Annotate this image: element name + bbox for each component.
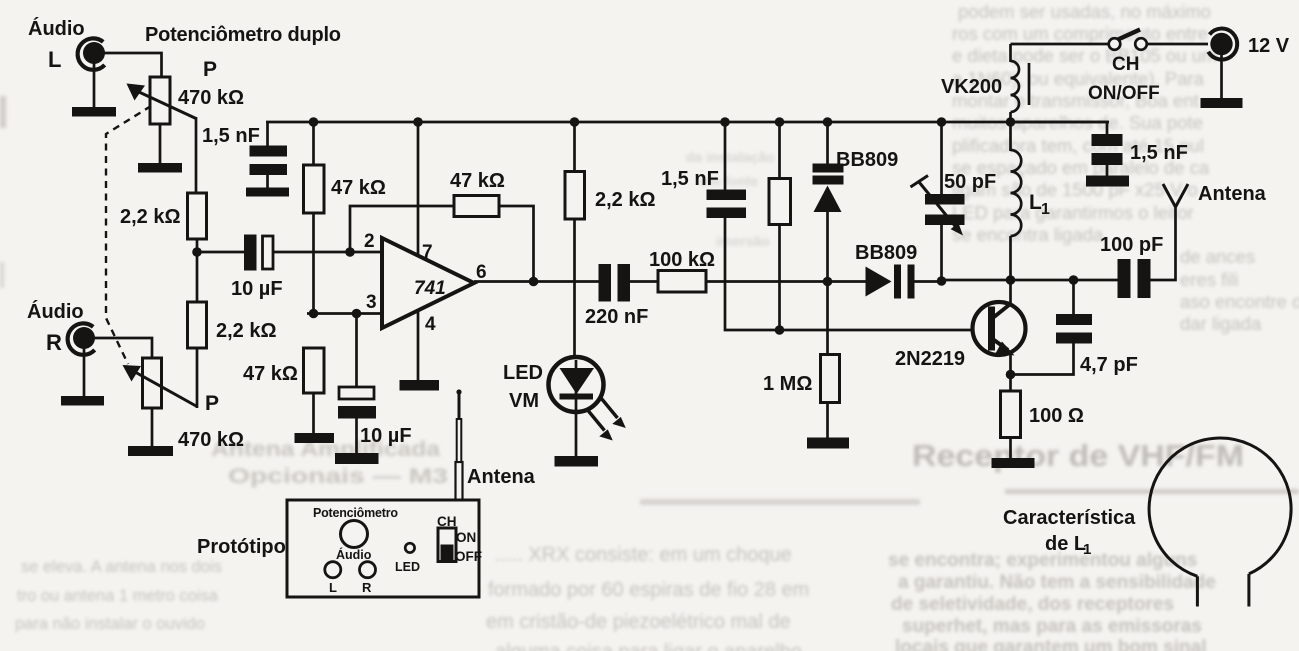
svg-text:Áudio: Áudio [27, 300, 84, 323]
trimmer capacitor 50pF [911, 122, 997, 281]
ground under 10uF bypass [335, 419, 379, 465]
switch CH [1109, 30, 1147, 50]
svg-text:a garantiu. Não tem a sensibil: a garantiu. Não tem a sensibilidade [898, 572, 1216, 593]
wire switch to 12V jack [1147, 43, 1208, 46]
node pin2 / feedback [345, 247, 355, 257]
svg-text:CH: CH [1112, 54, 1139, 75]
node rail / middle resistor [775, 117, 785, 127]
capacitor 1,5nF supply bypass [1011, 122, 1188, 187]
resistor middle (base feed) [769, 122, 791, 330]
label Caracteristica de L1 [1003, 507, 1136, 558]
wire 1,5nF down to base line [725, 218, 990, 330]
capacitor 10uF input (polarized) [231, 235, 283, 301]
node pin3 / 10uF [352, 309, 362, 319]
ground under jack L [72, 63, 116, 117]
capacitor 4,7pF feedback [1015, 280, 1138, 376]
node rail / pin7 [413, 117, 423, 127]
svg-text:2N2219: 2N2219 [895, 348, 965, 370]
svg-text:470 kΩ: 470 kΩ [178, 429, 244, 451]
ground under pot L [138, 124, 182, 173]
wire 2,2k down to LED (crosses output line, no junction) [573, 219, 576, 358]
svg-text:P: P [203, 58, 217, 81]
svg-text:10 µF: 10 µF [231, 278, 283, 300]
connector J3 12V supply [1208, 29, 1237, 60]
svg-text:locais que garantem um bom sin: locais que garantem um bom sinal [895, 637, 1206, 651]
varicap D2 BB809 (horizontal) [855, 242, 917, 299]
svg-text:P: P [205, 392, 219, 415]
svg-text:10 µF: 10 µF [360, 425, 412, 447]
ground under 12V jack [1201, 54, 1243, 108]
node output / feedback [529, 277, 539, 287]
ground under 47k lower [295, 393, 335, 443]
node rail / VK200 [1006, 117, 1016, 127]
capacitor C1 1,5nF to ground [246, 122, 289, 197]
svg-text:Potenciômetro duplo: Potenciômetro duplo [145, 24, 341, 46]
node L1 / collector / signal [1006, 275, 1016, 285]
wire jack R to pot R [94, 338, 152, 359]
node rail / varicap 1 [823, 117, 833, 127]
resistor 47k feedback [450, 170, 505, 217]
svg-text:4,7 pF: 4,7 pF [1080, 354, 1138, 376]
svg-text:50 pF: 50 pF [944, 171, 996, 193]
resistor 2,2k (L) [120, 193, 207, 239]
potentiometer P (R) 470k [123, 358, 198, 408]
svg-text:Característica: Característica [1003, 507, 1136, 529]
op-amp U1 741 [382, 238, 474, 328]
node signal / 4,7pF [1069, 275, 1079, 285]
node 47k divider / pin3 [309, 309, 319, 319]
node rail / trimmer [937, 117, 947, 127]
ground under 100 Ohm [992, 438, 1035, 469]
label Audio R [27, 300, 84, 355]
telescopic antenna rod [456, 389, 536, 500]
resistor 100k series [649, 249, 715, 292]
svg-text:aso encontre o: aso encontre o [1180, 291, 1299, 312]
svg-text:4: 4 [425, 314, 436, 335]
ground under jack R [61, 348, 104, 406]
potentiometer P (L) 470k [127, 77, 197, 124]
svg-text:100 Ω: 100 Ω [1029, 405, 1084, 427]
resistor 2,2k (R) [188, 302, 277, 348]
wire varicap1 down (crosses base line) [826, 211, 829, 355]
svg-text:2,2 kΩ: 2,2 kΩ [216, 320, 277, 342]
svg-text:741: 741 [414, 278, 446, 299]
node trimmer / signal line [937, 276, 947, 286]
svg-text:LED: LED [503, 362, 543, 384]
svg-text:ros com um comprimento entre: ros com um comprimento entre [952, 23, 1208, 44]
svg-text:Protótipo: Protótipo [197, 536, 286, 558]
wire VK200 top to switch [1011, 43, 1110, 46]
signal line right section [942, 279, 1119, 282]
svg-text:R: R [362, 580, 372, 595]
svg-text:470 kΩ: 470 kΩ [178, 87, 244, 109]
wire: top supply rail [266, 121, 1109, 124]
svg-text:VM: VM [509, 390, 539, 412]
svg-text:1: 1 [1083, 541, 1091, 558]
svg-text:de seletividade, dos receptore: de seletividade, dos receptores [891, 594, 1174, 615]
capacitor 1,5nF mid [661, 122, 746, 218]
svg-text:Áudio: Áudio [28, 17, 85, 40]
resistor 1M [763, 355, 840, 403]
svg-text:em cristão-de piezoelétrico ma: em cristão-de piezoelétrico mal de [486, 611, 791, 633]
LED VM indicator [549, 357, 604, 412]
svg-text:12 V: 12 V [1248, 35, 1290, 57]
svg-text:podem ser usadas, no máximo: podem ser usadas, no máximo [958, 1, 1211, 22]
wire 100pF to antenna [1151, 206, 1176, 280]
wire op-amp output [474, 280, 599, 283]
svg-text:se encontra; experimentou algu: se encontra; experimentou alguns [888, 550, 1197, 571]
wire pin 4 down [417, 310, 420, 381]
svg-text:da instalação: da instalação [686, 149, 775, 165]
connector J2 RCA Audio R [68, 323, 95, 354]
capacitor 220nF coupling [585, 264, 648, 328]
svg-text:L: L [329, 580, 337, 595]
svg-text:alguma coisa para ligar o apar: alguma coisa para ligar o aparelho [495, 641, 802, 651]
svg-text:ON: ON [456, 530, 476, 545]
svg-text:Opcionais — M3: Opcionais — M3 [228, 465, 448, 488]
svg-text:superhet, mas para as emissora: superhet, mas para as emissoras [902, 616, 1202, 637]
LED light arrows [588, 398, 626, 441]
wire 2,2k R down to wiper [196, 348, 199, 408]
svg-text:1,5 nF: 1,5 nF [661, 168, 719, 190]
wire pin 7 to rail [417, 122, 420, 257]
ground under 1M [807, 403, 849, 449]
wire varicap2 to trimmer node [915, 280, 943, 283]
wire 2,2k to node [196, 239, 199, 303]
svg-text:Potenciômetro: Potenciômetro [313, 506, 398, 520]
svg-text:e dieta pode ser o BB105 ou um: e dieta pode ser o BB105 ou um [952, 45, 1217, 66]
svg-text:LED: LED [395, 560, 420, 574]
svg-text:47 kΩ: 47 kΩ [450, 170, 505, 192]
svg-text:se encontra ligada: se encontra ligada [952, 224, 1104, 245]
capacitor 10uF bypass (polarized) [338, 314, 412, 448]
antenna symbol [1163, 183, 1267, 207]
label Audio L [28, 17, 85, 72]
svg-text:R: R [46, 330, 62, 355]
svg-text:220 nF: 220 nF [585, 306, 648, 328]
wire cap to op-amp pin 2 [273, 251, 383, 254]
wire op-amp pin 3 line [307, 312, 383, 315]
resistor 100 Ohm emitter [1001, 375, 1084, 438]
ground under LED [555, 410, 599, 467]
svg-text:LED para garantirmos o leitor: LED para garantirmos o leitor [952, 202, 1194, 223]
node varicap1 / signal line [823, 277, 833, 287]
svg-text:BB809: BB809 [836, 149, 898, 171]
node rail / 1,5nF mid [720, 117, 730, 127]
svg-text:3: 3 [366, 292, 377, 313]
ground op-amp pin 4 [400, 380, 440, 391]
svg-text:100 pF: 100 pF [1100, 234, 1163, 256]
prototype front panel box [287, 500, 482, 597]
wire 100k to varicap line [706, 280, 866, 283]
svg-text:Áudio: Áudio [336, 547, 372, 562]
svg-text:47 kΩ: 47 kΩ [243, 363, 298, 385]
svg-text:2,2 kΩ: 2,2 kΩ [120, 206, 181, 228]
svg-text:L: L [48, 47, 61, 72]
svg-text:de L: de L [1045, 533, 1086, 555]
wire pot L wiper down [195, 117, 198, 194]
svg-text:se eleva. A antena nos dois: se eleva. A antena nos dois [21, 558, 222, 576]
wire jack L to pot [104, 53, 162, 78]
feedback wire pin2 up and right [350, 206, 455, 252]
connector J1 RCA Audio L [78, 38, 105, 69]
svg-text:2,2 kΩ: 2,2 kΩ [595, 189, 656, 211]
svg-text:VK200: VK200 [941, 76, 1002, 98]
node emitter junction [1006, 370, 1016, 380]
svg-text:1: 1 [1041, 201, 1050, 218]
svg-text:tro ou antena 1 metro coisa: tro ou antena 1 metro coisa [17, 587, 219, 605]
svg-text:OFF: OFF [455, 549, 482, 564]
dashed gang-coupling line [106, 106, 151, 364]
feedback wire to output node [499, 206, 534, 282]
ground under pot R [128, 408, 173, 456]
varicap D1 BB809 (vertical) [813, 122, 899, 212]
svg-text:ON/OFF: ON/OFF [1088, 83, 1160, 104]
node base line junction [775, 325, 785, 335]
svg-text:2: 2 [364, 231, 375, 252]
svg-text:formado por 60 espiras de fio: formado por 60 espiras de fio 28 em [488, 579, 809, 601]
svg-text:47 kΩ: 47 kΩ [331, 177, 386, 199]
svg-text:de ances: de ances [1180, 246, 1255, 267]
svg-text:7: 7 [422, 242, 433, 263]
wire node to cap 10uF [197, 251, 245, 254]
inductor L1 [1011, 122, 1051, 281]
inductor VK200 choke [941, 44, 1029, 123]
node rail / 2,2k LED branch [570, 117, 580, 127]
svg-text:eres fili: eres fili [1180, 269, 1239, 290]
svg-text:Antena: Antena [1198, 183, 1267, 205]
svg-text:6: 6 [476, 262, 487, 283]
svg-text:Antena: Antena [467, 466, 536, 488]
node rail / 47k [309, 117, 319, 127]
svg-text:BB809: BB809 [855, 242, 917, 264]
resistor 2,2k LED branch [565, 122, 656, 219]
transistor Q1 2N2219 [895, 281, 1026, 375]
L1 characteristic coil drawing [1149, 438, 1291, 606]
label LED VM [503, 362, 543, 412]
svg-text:1,5 nF: 1,5 nF [202, 125, 260, 147]
wire 220nF to 100k [630, 280, 659, 283]
svg-text:para não instalar o ouvido: para não instalar o ouvido [15, 615, 205, 633]
svg-text:..... XRX consiste: em um choq: ..... XRX consiste: em um choque [495, 544, 792, 566]
capacitor 100pF output [1100, 234, 1163, 298]
svg-text:1,5 nF: 1,5 nF [1130, 142, 1188, 164]
node junction pot chain / 10uF [192, 247, 202, 257]
resistor 47k upper (bias) [304, 122, 386, 314]
svg-text:1 MΩ: 1 MΩ [763, 373, 812, 395]
resistor 47k lower (bias) [243, 348, 324, 393]
svg-text:100 kΩ: 100 kΩ [649, 249, 715, 271]
svg-text:dar ligada: dar ligada [1180, 313, 1262, 334]
